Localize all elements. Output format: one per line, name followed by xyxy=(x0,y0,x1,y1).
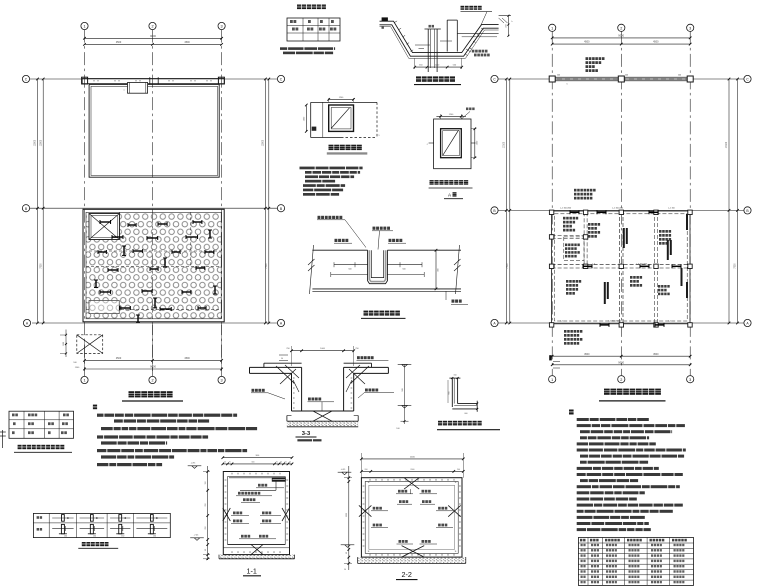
left plan slab internal line v1 xyxy=(190,212,192,266)
sump section slope hatch ticks xyxy=(395,21,398,23)
svg-text:50: 50 xyxy=(281,358,283,360)
svg-text:4500: 4500 xyxy=(116,357,122,360)
right plan beam label cluster 3 vertical xyxy=(623,228,625,248)
svg-text:90: 90 xyxy=(346,552,348,554)
right plan beam label cluster 2 xyxy=(588,223,600,226)
A-type side mid ticks xyxy=(429,142,434,144)
left plan pool inner wall rectangle xyxy=(91,86,218,175)
sump section title text xyxy=(416,76,456,81)
left plan below-slab dashed pit with X xyxy=(77,335,103,354)
sump plan inner diagonal xyxy=(332,108,350,128)
svg-text:250: 250 xyxy=(205,527,207,530)
right plan beam label cluster 9 right side vertical xyxy=(681,268,683,286)
right plan bottom dimension spans xyxy=(552,355,690,357)
left plan column axis 2 line xyxy=(152,30,154,377)
right plan axis circle B right xyxy=(744,207,751,214)
sump section bottom dimension line xyxy=(415,66,462,68)
left plan column axis 1 line xyxy=(84,30,86,377)
right plan axis circle 3 bottom xyxy=(687,376,694,383)
svg-text:75: 75 xyxy=(276,462,278,464)
section 2-2 right wall X cross xyxy=(448,505,461,516)
svg-text:7500: 7500 xyxy=(266,263,268,269)
left plan hatched slab outer rectangle xyxy=(83,209,224,321)
svg-text:9000: 9000 xyxy=(618,360,624,364)
sump section inner step wall xyxy=(446,20,448,51)
svg-text:4500: 4500 xyxy=(116,41,122,44)
section 2-2 rebar labels second row xyxy=(399,500,408,503)
trench title text xyxy=(364,311,404,316)
section 3-3 right flange xyxy=(344,362,372,364)
section 2-2 left elevation top xyxy=(338,472,352,475)
sump plan title thick underline xyxy=(327,152,368,154)
section 2-2 rebar labels top pair xyxy=(398,490,407,493)
trench right dimension xyxy=(435,250,437,289)
svg-text:150: 150 xyxy=(454,374,457,376)
right plan beam grid outer solid rectangle xyxy=(552,211,690,324)
L-detail vertical bar xyxy=(451,378,453,407)
svg-text:240: 240 xyxy=(625,75,628,77)
right plan C beam column square 3 xyxy=(687,76,693,82)
sump section title underline xyxy=(414,84,461,86)
svg-text:600: 600 xyxy=(449,392,451,395)
sump plan title text xyxy=(329,145,367,150)
svg-text:100: 100 xyxy=(396,428,399,430)
rebar shapes table cell glyphs row2 xyxy=(52,524,73,537)
section 2-2 rebar labels right wall xyxy=(438,507,447,510)
sump plan outer rect dashed edges xyxy=(341,137,377,139)
left plan slab bottom-left box xyxy=(89,301,119,314)
section 3-3 top right leader label xyxy=(357,356,374,359)
L-detail horizontal bar xyxy=(452,408,477,410)
section 3-3 subtitle xyxy=(297,439,321,441)
sump section waterproof leader label xyxy=(461,6,487,10)
left plan row axis B line xyxy=(30,207,278,209)
right plan C-axis beam band xyxy=(549,76,693,78)
right plan beam label near B left xyxy=(574,189,596,192)
section 3-3 left diagonals xyxy=(276,366,294,383)
trench slab bottom lines xyxy=(312,288,461,290)
svg-text:500: 500 xyxy=(402,388,404,391)
svg-text:3000: 3000 xyxy=(346,513,348,517)
left plan pool outer wall rectangle xyxy=(89,84,219,177)
pit support table title xyxy=(18,445,70,449)
section 1-1 inner top rebar lines xyxy=(229,477,276,479)
right plan beam grid partial beam B1 xyxy=(552,234,586,236)
trench leader label 1 xyxy=(318,216,343,219)
right plan C beam column square 1 xyxy=(549,76,555,82)
rebar shapes table row labels xyxy=(37,516,43,519)
svg-text:9000: 9000 xyxy=(150,34,156,38)
section 2-2 rebar labels bottom pair xyxy=(399,540,408,543)
svg-text:12900: 12900 xyxy=(35,139,37,146)
trench slab top surface lines xyxy=(312,249,367,251)
right plan beam label cluster 11 right edge vertical xyxy=(686,214,688,230)
svg-text:2400: 2400 xyxy=(410,456,416,458)
svg-text:2000: 2000 xyxy=(410,469,414,471)
svg-text:240: 240 xyxy=(557,75,560,77)
left plan axis circle 3 top xyxy=(218,22,225,29)
right plan top dimension overall xyxy=(552,37,690,39)
svg-text:50: 50 xyxy=(344,569,346,571)
left plan small dimension chain near pit xyxy=(65,330,67,358)
rebar shapes table title xyxy=(82,542,110,546)
section 3-3 top dimension xyxy=(292,350,354,352)
section 1-1 bottom slab lines xyxy=(228,544,286,546)
svg-text:2-2: 2-2 xyxy=(402,570,412,579)
left plan axis circle C left xyxy=(22,75,29,82)
svg-text:9000: 9000 xyxy=(150,365,156,369)
svg-text:600: 600 xyxy=(252,462,255,464)
svg-text:1-1: 1-1 xyxy=(247,567,257,576)
svg-text:L-1 150: L-1 150 xyxy=(668,208,676,210)
right plan bottom left tick mark xyxy=(549,355,552,360)
left plan top dimension line spans xyxy=(85,43,222,45)
left plan bottom dimension extension ticks xyxy=(84,340,86,371)
section 2-2 top dim overall xyxy=(361,458,463,460)
sump schedule note lines xyxy=(280,47,335,50)
section 2-2 bottom center X cross xyxy=(402,546,425,558)
section 2-2 left dim chain xyxy=(348,466,350,570)
svg-text:4500: 4500 xyxy=(653,41,659,44)
L-detail title xyxy=(438,421,484,426)
svg-text:3: 3 xyxy=(689,378,691,382)
section 2-2 left elevation bottom xyxy=(341,545,355,548)
left plan slab sump box top-left xyxy=(89,214,119,240)
right plan axis circle 3 top xyxy=(687,24,694,31)
svg-text:1500: 1500 xyxy=(63,342,65,346)
left plan beam column cap 3 xyxy=(218,77,224,84)
right plan beam label cluster 12 mid-right block xyxy=(658,285,670,288)
sump plan thick inner box xyxy=(329,105,354,131)
svg-text:1: 1 xyxy=(551,26,553,30)
right plan row axis C line xyxy=(498,78,744,80)
right plan beam grid vertical beam x656 xyxy=(654,211,656,325)
svg-text:3-3: 3-3 xyxy=(302,431,311,437)
svg-text:5: 5 xyxy=(566,84,567,86)
left plan row axis A line xyxy=(32,322,278,324)
section 1-1 callout labels with underlines xyxy=(258,484,267,487)
svg-text:200: 200 xyxy=(365,469,368,471)
svg-text:50: 50 xyxy=(289,462,291,464)
left plan left dimension chain xyxy=(37,79,39,323)
right plan axis circle 2 top xyxy=(618,24,625,31)
section 3-3 wall rebar ticks xyxy=(293,377,295,379)
svg-text:1: 1 xyxy=(551,378,553,382)
svg-text:250: 250 xyxy=(205,504,207,507)
section 3-3 right leader label xyxy=(365,389,378,392)
trench left break mark xyxy=(310,245,314,294)
svg-text:50: 50 xyxy=(285,462,287,464)
svg-text:150: 150 xyxy=(93,536,96,538)
trench leader label 4 right xyxy=(389,239,403,242)
trench right break mark xyxy=(456,245,460,294)
left plan C-axis beam band xyxy=(82,77,224,79)
pit support table grid xyxy=(9,411,74,438)
left plan axis circle 2 top xyxy=(149,22,156,29)
left plan axis circle A left xyxy=(23,319,30,326)
section 1-1 outer wall box xyxy=(223,472,289,555)
right plan grid column squares xyxy=(549,210,553,214)
left notes lines xyxy=(97,414,237,417)
sump section left tiny label xyxy=(382,26,384,29)
left plan axis circle 2 bottom xyxy=(149,376,156,383)
L-detail title underline xyxy=(437,429,500,431)
trench rebar line upper left xyxy=(334,264,368,266)
right plan C beam column square 2 xyxy=(618,76,624,82)
rebar shapes table grid xyxy=(33,513,170,537)
trench U outer wall xyxy=(368,250,388,284)
svg-text:150: 150 xyxy=(153,536,156,538)
svg-text:4500: 4500 xyxy=(184,41,190,44)
svg-text:2: 2 xyxy=(620,378,622,382)
right plan axis circle B left xyxy=(491,207,498,214)
left plan slab internal dashed line h1 xyxy=(89,250,221,252)
svg-text:7500: 7500 xyxy=(507,263,509,269)
left plan pool notch opening xyxy=(128,83,148,94)
svg-text:150: 150 xyxy=(121,536,124,538)
right plan beam label cluster 7 xyxy=(630,276,642,279)
right notes lines xyxy=(577,418,649,421)
trench leader label 3 left xyxy=(335,239,349,242)
sump plan outer rect solid edges xyxy=(311,101,377,103)
section 1-1 inner wall lines xyxy=(228,477,286,545)
left plan right dimension chain xyxy=(264,79,266,323)
left plan row axis C line xyxy=(30,78,278,80)
svg-text:150: 150 xyxy=(205,482,207,485)
A-type title text xyxy=(430,180,472,185)
svg-text:2: 2 xyxy=(151,25,153,29)
left plan slab internal line v2 xyxy=(118,212,120,239)
left plan bottom dimension line spans xyxy=(85,359,222,361)
svg-text:200: 200 xyxy=(457,469,460,471)
sump plan top dimension ticks xyxy=(328,98,330,102)
svg-text:J: J xyxy=(427,144,428,146)
L-detail right hook xyxy=(476,401,478,412)
svg-text:13100: 13100 xyxy=(726,141,728,148)
trench rebar line lower xyxy=(331,274,368,276)
right plan beam grid dashed sub-rect left bay xyxy=(564,237,584,261)
right plan beam label cluster 10 dense left-mid block xyxy=(565,244,580,247)
svg-text:L-2 150x300: L-2 150x300 xyxy=(608,321,620,323)
section 2-2 top center X cross xyxy=(404,478,419,489)
left plan axis circle A right xyxy=(277,319,284,326)
svg-text:2: 2 xyxy=(620,26,622,30)
svg-text:4500: 4500 xyxy=(584,353,590,356)
right plan beam label cluster 1 xyxy=(563,217,578,220)
right plan axis circle 1 top xyxy=(549,24,556,31)
sump schedule table title xyxy=(297,5,331,10)
svg-text:250: 250 xyxy=(286,348,289,350)
section 1-1 gravel strip xyxy=(219,555,295,559)
svg-text:75: 75 xyxy=(229,462,231,464)
left plan axis circle C right xyxy=(277,75,284,82)
section 2-2 inner thin rect xyxy=(369,485,455,549)
right plan row axis B line xyxy=(498,209,744,211)
right plan beam rebar tick marks xyxy=(597,210,606,214)
section 1-1 bottom X cross xyxy=(251,545,263,555)
sump section right two-line label xyxy=(472,50,488,53)
L-detail top hook xyxy=(449,377,460,379)
left plan hatched slab inner wall line xyxy=(86,212,221,318)
right plan left dimension chain xyxy=(505,79,507,323)
svg-text:600: 600 xyxy=(465,413,468,415)
sump plan inner vertical line xyxy=(322,102,324,137)
A-type right dimension xyxy=(474,129,476,158)
trench U inner wall xyxy=(371,250,383,277)
A-type top dimension xyxy=(436,115,466,117)
left plan beam column cap 2 pair lines xyxy=(149,77,151,84)
section 3-3 bottom X cross xyxy=(313,411,332,421)
section 2-2 outer wall box xyxy=(361,478,462,557)
svg-text:3: 3 xyxy=(221,379,223,383)
section 1-1 top-right label block xyxy=(272,477,286,481)
sump plan left small arrow block xyxy=(312,127,317,131)
sump plan left dimension xyxy=(305,105,307,131)
A-type detail inner thick rect xyxy=(441,129,462,158)
section 3-3 right elevation marks xyxy=(398,365,412,368)
far left margin marks xyxy=(0,431,6,433)
svg-text:12900: 12900 xyxy=(263,139,265,146)
svg-text:7500: 7500 xyxy=(735,263,737,269)
right plan column axis 3 line xyxy=(689,31,691,375)
right plan bottom dimension overall xyxy=(552,364,690,366)
svg-text:250: 250 xyxy=(355,348,358,350)
trench title underline xyxy=(361,317,406,319)
svg-text:240: 240 xyxy=(678,75,681,77)
left plan slab rebar callout glyphs xyxy=(100,220,111,224)
sump section top slab surface polyline xyxy=(380,21,499,52)
section 1-1 top dim segments xyxy=(223,463,292,465)
left plan slab internal dashed line h2 xyxy=(86,265,221,267)
left plan title text xyxy=(129,391,177,397)
right plan beam grid vertical beam x585 top half xyxy=(583,212,585,266)
right plan beam grid center vertical beam xyxy=(619,211,621,325)
right notes header xyxy=(569,410,578,415)
pit support table cell texts xyxy=(12,414,18,417)
left notes header xyxy=(93,405,102,410)
left plan hatched slab circle pattern fill xyxy=(86,212,221,318)
svg-text:L-1 150x300: L-1 150x300 xyxy=(560,208,572,210)
section 3-3 left leader label xyxy=(252,389,265,392)
trench U gray lining xyxy=(369,250,385,281)
left plan axis circle 1 bottom xyxy=(81,376,88,383)
section 3-3 left wall xyxy=(291,373,293,411)
right plan row axis A line xyxy=(498,322,744,324)
section 1-1 wall rebar ticks xyxy=(225,479,227,481)
svg-text:250: 250 xyxy=(505,24,507,27)
anchorage table header texts xyxy=(580,539,586,542)
section 3-3 right wall xyxy=(343,367,345,411)
sump section internal rebar line xyxy=(415,44,430,46)
section 3-3 center label xyxy=(308,398,321,401)
svg-text:L-3 150x300: L-3 150x300 xyxy=(636,263,648,265)
left plan beam column cap 1 xyxy=(82,77,88,84)
svg-text:7500: 7500 xyxy=(40,263,42,269)
svg-text:L-1 150x300: L-1 150x300 xyxy=(612,208,624,210)
svg-text:2: 2 xyxy=(151,379,153,383)
left plan bottom dimension line overall xyxy=(85,368,222,370)
sump section slab underside polyline xyxy=(380,25,499,56)
section 3-3 right diagonals xyxy=(351,366,369,383)
svg-text:1: 1 xyxy=(83,25,85,29)
sump section left corner block xyxy=(382,17,388,21)
right plan top dimension spans xyxy=(552,43,690,45)
left plan axis circle 1 top xyxy=(81,22,88,29)
sump section right side hatch and dims xyxy=(499,15,511,17)
right plan column axis 1 line xyxy=(551,31,553,375)
section 2-2 left wall X cross xyxy=(359,505,372,516)
section 2-2 gravel strip xyxy=(358,557,466,563)
sump section mid level line xyxy=(457,33,498,35)
trench rebar line upper right xyxy=(387,264,422,266)
right plan beam label cluster 8 vertical xyxy=(667,240,669,260)
right plan axis circle C right xyxy=(744,75,751,82)
right plan beam label cluster 4 xyxy=(659,230,671,233)
section 2-2 top dim segments xyxy=(361,470,463,472)
sump section inner pit left wall xyxy=(427,29,429,72)
right plan axis circle 1 bottom xyxy=(549,376,556,383)
A-type detail outer rect xyxy=(434,119,471,169)
svg-text:4500: 4500 xyxy=(653,353,659,356)
sump section pit top edge xyxy=(425,28,441,30)
A-type top right leader xyxy=(461,112,470,120)
section 2-2 wall rebar ticks xyxy=(363,485,365,487)
right plan title underline xyxy=(599,400,666,402)
sump section inner pit right wall xyxy=(436,29,438,72)
section 3-3 gravel strip xyxy=(287,421,358,427)
right plan beam label cluster 5 xyxy=(566,280,581,283)
section 1-1 left elevation bottom xyxy=(190,538,204,541)
svg-text:12900: 12900 xyxy=(40,139,42,146)
right plan right dimension chain xyxy=(728,79,730,323)
section 2-2 inner wall lines xyxy=(365,482,458,554)
right plan beam grid inner dashed inset rectangle xyxy=(554,214,687,321)
left plan slab internal dashed line h3 xyxy=(86,309,221,311)
right plan axis circle A right xyxy=(744,319,751,326)
svg-text:13100: 13100 xyxy=(503,141,505,148)
left plan axis circle B left xyxy=(22,205,29,212)
A-type inner diagonal xyxy=(443,130,459,155)
right plan axis circle C left xyxy=(491,75,498,82)
section 1-1 wall X crosses xyxy=(223,508,231,521)
svg-text:9000: 9000 xyxy=(618,33,624,37)
section 3-3 left mini dim xyxy=(279,354,288,356)
sump plan note lines xyxy=(300,167,363,170)
A-type title underline xyxy=(429,187,473,189)
left plan title underline xyxy=(122,400,183,402)
left plan top dimension line overall xyxy=(85,37,222,39)
sump schedule table grid xyxy=(287,18,340,41)
svg-text:3: 3 xyxy=(221,25,223,29)
svg-text:4500: 4500 xyxy=(184,357,190,360)
svg-text:1: 1 xyxy=(83,379,85,383)
sump section center label above shaft xyxy=(429,25,435,28)
right plan beam label below A xyxy=(564,330,582,333)
right plan column axis 2 line xyxy=(620,31,622,375)
svg-text:4500: 4500 xyxy=(584,41,590,44)
trench bottom leader label xyxy=(445,291,447,300)
svg-text:3: 3 xyxy=(689,26,691,30)
section 1-1 top dim overall xyxy=(223,457,292,459)
sump section slab third line xyxy=(380,27,499,59)
right plan beam grid middle beam xyxy=(552,264,690,266)
right plan axis circle 2 bottom xyxy=(618,376,625,383)
section 2-2 rebar labels left wall xyxy=(373,507,382,510)
svg-text:50: 50 xyxy=(280,462,282,464)
left plan axis circle B right xyxy=(277,205,284,212)
section 3-3 bottom slab xyxy=(292,410,354,412)
right plan title text xyxy=(604,389,663,395)
